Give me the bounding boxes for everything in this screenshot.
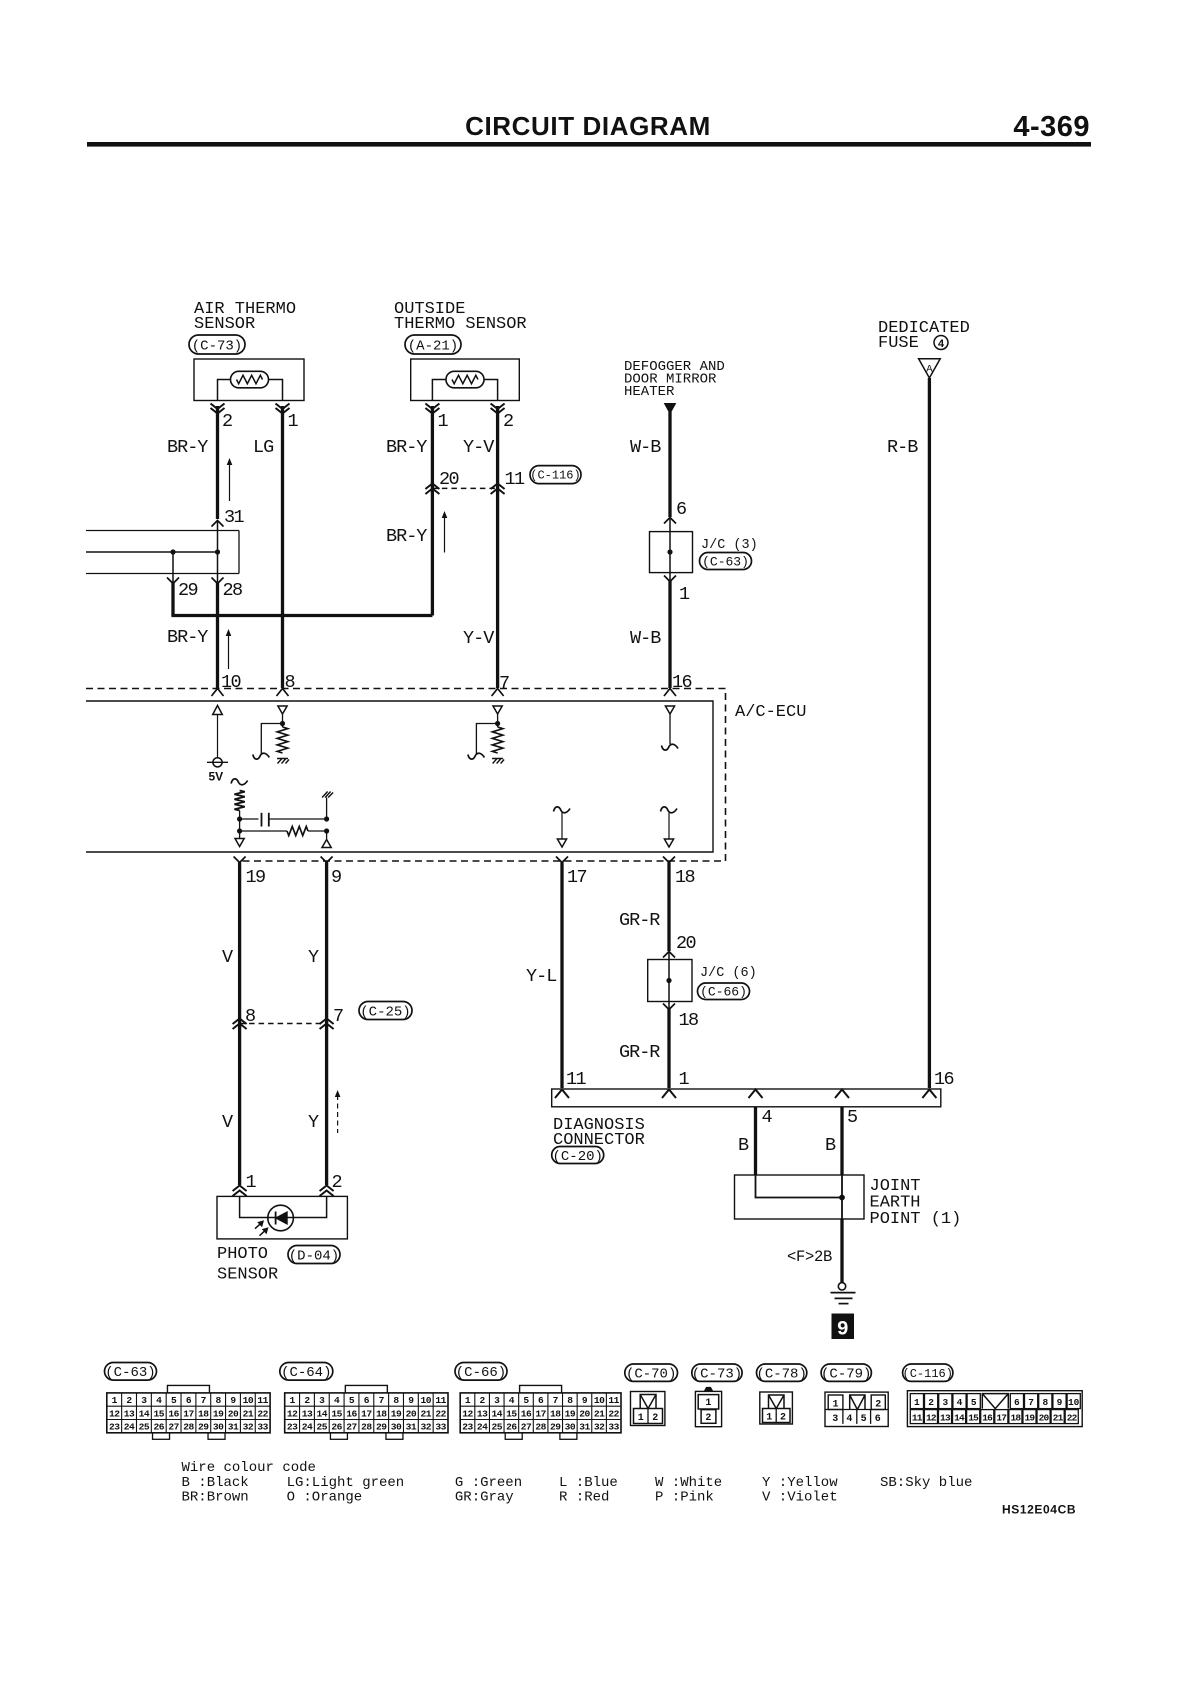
wire pin28 down xyxy=(217,552,219,583)
svg-text:15: 15 xyxy=(968,1413,979,1424)
svg-text:A/C-ECU: A/C-ECU xyxy=(735,703,806,722)
connector C-73 pinout label xyxy=(692,1364,742,1381)
ECU pin8 internal wire xyxy=(282,714,284,727)
svg-text:16: 16 xyxy=(934,1069,954,1090)
ECU pin16 internal triangle xyxy=(665,706,674,714)
heater control box right edge xyxy=(238,531,240,574)
J/C(6) pin18 exit chevron xyxy=(663,1004,675,1010)
svg-text:20: 20 xyxy=(579,1408,590,1419)
svg-text:HS12E04CB: HS12E04CB xyxy=(1002,1503,1076,1517)
svg-text:32: 32 xyxy=(243,1422,254,1433)
junction block J/C(3) box xyxy=(650,532,693,573)
ECU RC node upper left xyxy=(237,816,242,821)
svg-text:23: 23 xyxy=(287,1422,298,1433)
outside sensor internal wiring xyxy=(432,380,497,401)
svg-text:9: 9 xyxy=(582,1395,588,1406)
connector C-66 pinout label xyxy=(455,1363,507,1381)
connector C-63 label (J/C3) xyxy=(700,553,752,570)
svg-text:4: 4 xyxy=(156,1395,162,1406)
svg-text:21: 21 xyxy=(594,1408,605,1419)
ECU RC hatch ground xyxy=(322,792,333,798)
svg-text:CIRCUIT DIAGRAM: CIRCUIT DIAGRAM xyxy=(465,111,711,141)
ECU pin18 exit chevron xyxy=(663,857,675,863)
svg-text:11: 11 xyxy=(435,1395,446,1406)
svg-text:16: 16 xyxy=(521,1408,532,1419)
ECU pin16 entry chevron xyxy=(664,689,676,697)
junction dot J/C(6) xyxy=(666,978,671,983)
ECU pin7 internal wire xyxy=(497,714,499,727)
svg-text:13: 13 xyxy=(940,1413,951,1424)
wire B diag pin4 to earth xyxy=(754,1107,757,1175)
svg-text:25: 25 xyxy=(139,1422,150,1433)
svg-text:7: 7 xyxy=(333,1006,343,1027)
svg-text:BR-Y: BR-Y xyxy=(167,627,208,648)
svg-text:12: 12 xyxy=(287,1408,298,1419)
photo sensor pin1 chevron xyxy=(233,1186,247,1197)
svg-text:1: 1 xyxy=(438,411,449,432)
svg-text:(C-64): (C-64) xyxy=(281,1365,331,1381)
direction arrow (Y wire, dashed) xyxy=(337,1095,339,1133)
svg-text:3: 3 xyxy=(942,1397,948,1408)
direction arrow (BR-Y pin10) xyxy=(228,634,230,669)
connector C-63 pinout label xyxy=(105,1363,157,1381)
svg-text:7: 7 xyxy=(379,1395,385,1406)
connector C-20 label xyxy=(552,1147,604,1164)
diagnosis connector box xyxy=(552,1089,941,1107)
svg-text:21: 21 xyxy=(243,1408,254,1419)
svg-text:SB:Sky blue: SB:Sky blue xyxy=(880,1475,972,1491)
svg-text:22: 22 xyxy=(1067,1413,1078,1424)
svg-text:BR:Brown: BR:Brown xyxy=(182,1489,249,1505)
svg-text:16: 16 xyxy=(672,672,692,693)
svg-text:8: 8 xyxy=(216,1395,222,1406)
svg-text:20: 20 xyxy=(228,1408,239,1419)
ECU 5V supply arrow xyxy=(217,714,219,758)
svg-text:(A-21): (A-21) xyxy=(408,338,458,354)
pin 31 entry chevron xyxy=(212,521,224,527)
ECU RC capacitor xyxy=(261,813,263,827)
svg-text:PHOTO: PHOTO xyxy=(217,1245,268,1264)
svg-text:28: 28 xyxy=(535,1422,546,1433)
svg-text:19: 19 xyxy=(565,1408,576,1419)
svg-text:13: 13 xyxy=(302,1408,313,1419)
wire earth box to ground xyxy=(840,1219,843,1283)
svg-text:1: 1 xyxy=(679,1069,690,1090)
svg-text:10: 10 xyxy=(221,672,241,693)
svg-text:4: 4 xyxy=(938,339,945,351)
svg-text:J/C (6): J/C (6) xyxy=(700,966,757,981)
svg-text:27: 27 xyxy=(168,1422,179,1433)
thermistor (outside) xyxy=(446,371,484,388)
connector C-73 label (air thermo) xyxy=(189,335,245,354)
connector C-25 dashed line xyxy=(240,1023,327,1025)
svg-text:2: 2 xyxy=(304,1395,310,1406)
ECU pin8 pull resistor xyxy=(277,727,287,753)
svg-text:21: 21 xyxy=(1053,1413,1064,1424)
node junction pin29 xyxy=(170,549,175,554)
J/C(3) pin1 exit chevron xyxy=(664,576,676,582)
svg-text:4: 4 xyxy=(846,1414,852,1425)
svg-text:6: 6 xyxy=(875,1414,881,1425)
svg-text:22: 22 xyxy=(257,1408,268,1419)
outside pin 2 connector chevron xyxy=(491,404,505,414)
svg-text:18: 18 xyxy=(550,1408,561,1419)
svg-text:19: 19 xyxy=(213,1408,224,1419)
svg-text:(C-25): (C-25) xyxy=(360,1004,410,1020)
ECU pin8 internal node xyxy=(280,721,285,726)
svg-text:17: 17 xyxy=(183,1408,194,1419)
svg-text:8: 8 xyxy=(393,1395,399,1406)
wire Y-L ECU pin17 to diagnosis pin11 xyxy=(560,863,563,1089)
ECU pin9 exit chevron xyxy=(321,857,333,863)
joint earth node xyxy=(839,1195,845,1201)
connector C-66 label (J/C6) xyxy=(698,983,750,1000)
svg-text:7: 7 xyxy=(553,1395,559,1406)
svg-text:5: 5 xyxy=(349,1395,355,1406)
svg-text:14: 14 xyxy=(954,1413,965,1424)
diag pin16 chevron xyxy=(922,1090,936,1099)
svg-text:6: 6 xyxy=(364,1395,370,1406)
svg-text:2: 2 xyxy=(126,1395,132,1406)
svg-text:20: 20 xyxy=(1039,1413,1050,1424)
wire BR-Y outside pin1 to bus xyxy=(431,406,434,616)
ECU pin8 branch continuation curl xyxy=(253,753,269,759)
fuse tap triangle with A xyxy=(919,359,941,378)
svg-text:14: 14 xyxy=(491,1408,502,1419)
svg-text:(C-73): (C-73) xyxy=(692,1366,742,1382)
svg-text:15: 15 xyxy=(154,1408,165,1419)
wire V ECU pin19 to photo sensor xyxy=(238,863,241,1186)
svg-text:(C-66): (C-66) xyxy=(700,985,747,1000)
ECU RC node lower left xyxy=(237,828,242,833)
ECU RC pin9 side triangle xyxy=(322,840,331,848)
ECU RC vertical resistor xyxy=(234,791,244,811)
air thermo sensor internal wiring xyxy=(218,380,283,401)
svg-text:4-369: 4-369 xyxy=(1013,111,1090,143)
ECU RC bottom branch wire xyxy=(240,830,287,832)
connector C-73 pinout box xyxy=(705,1388,713,1392)
C-25 chevron pin7 xyxy=(320,1019,334,1030)
svg-text:R :Red: R :Red xyxy=(559,1489,609,1505)
ECU RC bottom branch wire right xyxy=(308,830,327,832)
connector C-116 pinout box xyxy=(907,1391,1082,1427)
svg-text:30: 30 xyxy=(565,1422,576,1433)
ECU pin7 internal triangle xyxy=(493,706,502,714)
svg-text:1: 1 xyxy=(679,584,690,605)
svg-text:25: 25 xyxy=(317,1422,328,1433)
photo sensor light arrow 2 xyxy=(260,1231,265,1236)
ECU pin8 entry chevron xyxy=(277,689,289,697)
svg-text:14: 14 xyxy=(317,1408,328,1419)
svg-text:22: 22 xyxy=(608,1408,619,1419)
connector C-63 pinout grid xyxy=(167,1385,209,1393)
C-25 chevron pin8 xyxy=(233,1019,247,1030)
svg-text:28: 28 xyxy=(223,580,243,601)
node junction pin28 xyxy=(215,549,220,554)
connector C-25 label xyxy=(359,1002,412,1020)
svg-text:11: 11 xyxy=(505,469,526,490)
svg-text:V: V xyxy=(222,947,233,968)
air thermo pin 1 connector chevron xyxy=(276,404,290,414)
svg-text:29: 29 xyxy=(178,580,198,601)
ground symbol xyxy=(838,1283,845,1290)
svg-text:1: 1 xyxy=(112,1395,118,1406)
ECU RC wire up to hatch xyxy=(326,798,328,820)
connector C-64 pinout grid xyxy=(345,1385,387,1393)
connector C-116 pinout label xyxy=(903,1364,953,1381)
ECU RC horizontal resistor xyxy=(287,827,308,836)
svg-text:2: 2 xyxy=(780,1413,786,1424)
air thermo sensor box xyxy=(194,359,304,401)
ECU pin8 internal triangle xyxy=(278,706,287,714)
svg-text:17: 17 xyxy=(567,867,587,888)
svg-text:19: 19 xyxy=(1025,1413,1036,1424)
svg-text:3: 3 xyxy=(141,1395,147,1406)
svg-text:3: 3 xyxy=(319,1395,325,1406)
wire through J/C(3) xyxy=(669,518,671,582)
header rule xyxy=(87,142,1091,147)
ECU pin7 internal branch xyxy=(476,724,497,755)
svg-text:26: 26 xyxy=(154,1422,165,1433)
wire Y ECU pin9 to photo sensor xyxy=(325,863,328,1186)
svg-text:(C-79): (C-79) xyxy=(821,1366,871,1382)
svg-text:THERMO SENSOR: THERMO SENSOR xyxy=(394,315,527,334)
svg-text:6: 6 xyxy=(186,1395,192,1406)
svg-text:(D-04): (D-04) xyxy=(289,1248,339,1264)
svg-text:19: 19 xyxy=(246,867,266,888)
svg-text:1: 1 xyxy=(246,1172,257,1193)
svg-text:19: 19 xyxy=(391,1408,402,1419)
wire B diag pin5 to earth xyxy=(840,1107,843,1175)
svg-text:26: 26 xyxy=(331,1422,342,1433)
svg-text:5V: 5V xyxy=(209,770,224,784)
svg-text:1: 1 xyxy=(914,1397,920,1408)
svg-text:13: 13 xyxy=(477,1408,488,1419)
J/C(6) pin20 entry chevron xyxy=(663,952,675,958)
svg-text:18: 18 xyxy=(198,1408,209,1419)
ECU RC cluster curl xyxy=(231,779,248,785)
svg-text:R-B: R-B xyxy=(887,437,918,458)
ECU pin10 entry chevron xyxy=(212,689,224,697)
svg-text:Y-L: Y-L xyxy=(526,966,556,987)
svg-text:16: 16 xyxy=(346,1408,357,1419)
C-116 chevron pin20 xyxy=(425,484,439,495)
svg-text:9: 9 xyxy=(331,867,341,888)
svg-text:24: 24 xyxy=(477,1422,488,1433)
wire W-B J/C(3) to ECU pin16 xyxy=(668,580,671,688)
defogger feed solid triangle xyxy=(665,404,676,414)
svg-text:SENSOR: SENSOR xyxy=(217,1266,278,1285)
connector C-70 pinout box xyxy=(631,1392,665,1426)
ECU RC wire resistor to nodes xyxy=(239,811,241,839)
connector A-21 label xyxy=(405,335,461,354)
svg-text:23: 23 xyxy=(109,1422,120,1433)
svg-text:5: 5 xyxy=(171,1395,177,1406)
svg-text:(C-78): (C-78) xyxy=(756,1366,806,1382)
svg-text:1: 1 xyxy=(705,1398,711,1409)
ECU pin8 internal branch xyxy=(261,724,282,755)
wire pin29 to bus xyxy=(171,582,174,616)
svg-text:8: 8 xyxy=(1042,1397,1048,1408)
svg-text:GR-R: GR-R xyxy=(619,910,660,931)
svg-text:5: 5 xyxy=(847,1107,857,1128)
svg-text:A: A xyxy=(926,364,933,376)
joint earth internal wiring xyxy=(756,1175,843,1198)
svg-text:33: 33 xyxy=(608,1422,619,1433)
svg-text:3: 3 xyxy=(832,1414,838,1425)
ECU pin16 internal wire xyxy=(669,714,671,744)
svg-text:7: 7 xyxy=(201,1395,207,1406)
svg-text:31: 31 xyxy=(579,1422,590,1433)
svg-text:BR-Y: BR-Y xyxy=(167,437,208,458)
junction dot J/C(3) xyxy=(667,549,672,554)
svg-text:27: 27 xyxy=(346,1422,357,1433)
wire GR-R ECU pin18 to J/C(6) xyxy=(667,863,670,952)
ECU pin8 internal ground xyxy=(277,759,289,764)
connector C-78 pinout box xyxy=(760,1392,793,1424)
photo diode symbol xyxy=(275,1212,277,1225)
svg-text:17: 17 xyxy=(535,1408,546,1419)
svg-text:Y-V: Y-V xyxy=(463,437,494,458)
wire LG air thermo pin1 to ECU pin8 xyxy=(281,406,284,688)
ECU pin18 internal curl xyxy=(661,807,678,813)
svg-text:31: 31 xyxy=(228,1422,239,1433)
svg-text:29: 29 xyxy=(550,1422,561,1433)
svg-text:5: 5 xyxy=(523,1395,529,1406)
svg-text:8: 8 xyxy=(567,1395,573,1406)
ECU pin7 internal node xyxy=(495,721,500,726)
svg-text:(C-63): (C-63) xyxy=(702,554,749,569)
svg-text:1: 1 xyxy=(289,1395,295,1406)
outside pin 1 connector chevron xyxy=(425,404,439,414)
direction arrow (BR-Y air thermo) xyxy=(229,463,231,501)
svg-text:B: B xyxy=(825,1135,836,1156)
svg-text:B: B xyxy=(738,1135,749,1156)
wire W-B defogger to J/C(3) xyxy=(668,412,671,517)
connector C-79 pinout box xyxy=(825,1392,888,1426)
internal bus wire in heater control box xyxy=(86,551,218,553)
outside thermo sensor box xyxy=(411,359,520,401)
ECU pin18 internal wire xyxy=(668,812,670,839)
svg-text:30: 30 xyxy=(391,1422,402,1433)
svg-text:15: 15 xyxy=(506,1408,517,1419)
svg-text:32: 32 xyxy=(594,1422,605,1433)
J/C(3) pin6 entry chevron xyxy=(664,518,676,524)
svg-text:HEATER: HEATER xyxy=(624,384,675,400)
connector C-116 label xyxy=(530,466,581,484)
svg-text:7: 7 xyxy=(1028,1397,1034,1408)
svg-text:LG: LG xyxy=(253,437,273,458)
svg-text:20: 20 xyxy=(406,1408,417,1419)
svg-text:(C-73): (C-73) xyxy=(192,338,242,354)
svg-text:(C-116): (C-116) xyxy=(903,1367,953,1381)
svg-text:29: 29 xyxy=(376,1422,387,1433)
svg-text:Y: Y xyxy=(308,947,319,968)
svg-text:4: 4 xyxy=(762,1107,773,1128)
wire Y-V outside pin2 to ECU pin7 xyxy=(496,406,499,688)
ECU pin17 internal triangle xyxy=(557,839,566,847)
svg-text:16: 16 xyxy=(982,1413,993,1424)
svg-text:V :Violet: V :Violet xyxy=(762,1489,838,1505)
svg-text:24: 24 xyxy=(124,1422,135,1433)
svg-text:(C-20): (C-20) xyxy=(552,1149,602,1165)
ECU pin19 exit chevron xyxy=(234,857,246,863)
connector C-64 pinout label xyxy=(280,1363,333,1381)
svg-text:6: 6 xyxy=(676,499,686,520)
junction block J/C(6) box xyxy=(648,960,692,1002)
heater control box bottom edge xyxy=(86,573,239,575)
C-116 chevron pin11 xyxy=(491,484,505,495)
svg-text:2: 2 xyxy=(705,1413,711,1424)
ECU RC node lower right xyxy=(324,828,329,833)
svg-text:16: 16 xyxy=(168,1408,179,1419)
svg-text:11: 11 xyxy=(257,1395,268,1406)
svg-text:(C-66): (C-66) xyxy=(456,1365,506,1381)
svg-text:10: 10 xyxy=(243,1395,254,1406)
svg-text:J/C (3): J/C (3) xyxy=(701,538,758,553)
diag pin4 chevron xyxy=(749,1090,763,1099)
svg-text:25: 25 xyxy=(491,1422,502,1433)
thermistor (air thermo) xyxy=(231,371,269,388)
earth reference 9 badge xyxy=(832,1314,855,1340)
svg-text:10: 10 xyxy=(1068,1397,1080,1408)
connector C-70 pinout label xyxy=(625,1364,678,1381)
svg-text:SENSOR: SENSOR xyxy=(194,315,255,334)
heater control box top edge xyxy=(86,530,239,532)
svg-text:(C-116): (C-116) xyxy=(530,469,580,483)
svg-text:32: 32 xyxy=(420,1422,431,1433)
svg-text:18: 18 xyxy=(376,1408,387,1419)
ECU 5V circle xyxy=(213,758,222,767)
svg-text:30: 30 xyxy=(213,1422,224,1433)
connector D-04 label xyxy=(288,1246,340,1264)
svg-text:2: 2 xyxy=(503,411,513,432)
ECU pin7 branch continuation curl xyxy=(468,753,485,759)
svg-text:5: 5 xyxy=(971,1397,977,1408)
svg-text:Y-V: Y-V xyxy=(463,628,494,649)
svg-text:GR:Gray: GR:Gray xyxy=(455,1489,514,1505)
svg-text:2: 2 xyxy=(652,1413,658,1424)
svg-text:<F>2B: <F>2B xyxy=(787,1248,832,1266)
svg-text:15: 15 xyxy=(331,1408,342,1419)
svg-text:4: 4 xyxy=(957,1397,963,1408)
svg-text:1: 1 xyxy=(638,1413,644,1424)
svg-text:POINT (1): POINT (1) xyxy=(870,1210,962,1229)
svg-text:9: 9 xyxy=(837,1319,849,1342)
air thermo pin 2 connector chevron xyxy=(211,404,225,414)
svg-text:BR-Y: BR-Y xyxy=(386,437,427,458)
photo diode circle xyxy=(268,1205,294,1231)
svg-text:31: 31 xyxy=(406,1422,417,1433)
thick bus wire BR-Y horizontal xyxy=(171,614,432,617)
ECU RC wire to pin19 triangle xyxy=(326,831,328,840)
svg-text:1: 1 xyxy=(766,1413,772,1424)
ECU pin17 exit chevron xyxy=(556,857,568,863)
photo sensor internal wiring xyxy=(240,1196,327,1217)
svg-text:Wire colour code: Wire colour code xyxy=(182,1460,316,1476)
wire pin29 down xyxy=(172,552,174,583)
A/C-ECU dashed outline xyxy=(86,689,726,862)
svg-text:GR-R: GR-R xyxy=(619,1042,660,1063)
wire pin28 to ECU pin10 (BR-Y) xyxy=(216,582,219,688)
svg-text:20: 20 xyxy=(676,933,696,954)
svg-text:1: 1 xyxy=(288,411,299,432)
ECU pin17 internal curl xyxy=(554,807,571,813)
ECU pin18 internal triangle xyxy=(664,839,673,847)
diag pin11 chevron xyxy=(555,1090,569,1099)
svg-text:9: 9 xyxy=(230,1395,236,1406)
svg-text:1: 1 xyxy=(465,1395,471,1406)
